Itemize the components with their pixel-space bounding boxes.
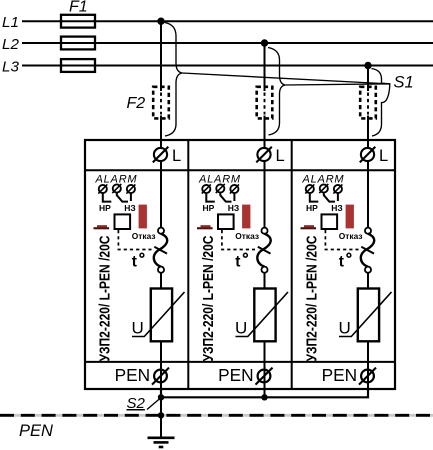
svg-text:PEN: PEN — [218, 365, 254, 385]
wire: module 2 drop from box top to L terminal — [264, 140, 266, 149]
wire: switch to varistor (module 2) — [264, 273, 266, 289]
ALARM terminal 3 (module 3) — [333, 184, 342, 193]
thermal switch tick (module 2) — [258, 247, 271, 254]
ALARM terminal 2 (module 3) — [319, 184, 328, 193]
enclosure divider between module 2 and 3 — [291, 140, 293, 389]
svg-text:t: t — [132, 254, 137, 271]
label t deg (module 3) — [339, 253, 351, 270]
wire: NC contact blade terminals 2-3 (module 2) — [220, 193, 231, 202]
wire: L terminal to switch (module 1) — [160, 161, 162, 229]
svg-text:U: U — [132, 319, 144, 338]
ALARM terminal 1 (module 2) — [202, 184, 211, 193]
svg-text:НЗ: НЗ — [124, 203, 135, 213]
thermal switch blade (module 2) — [257, 234, 270, 267]
terminal PEN (module 3) — [359, 368, 376, 385]
indicator red bar Otkaz (module 3) — [346, 205, 354, 229]
terminal PEN (module 2) — [256, 368, 273, 385]
svg-text:t: t — [235, 254, 240, 271]
terminal L (module 2) — [256, 147, 284, 165]
wire: NO contact from terminal 1 (module 2) — [206, 193, 215, 202]
svg-text:PEN: PEN — [19, 422, 53, 440]
ground symbol — [148, 438, 175, 447]
node: PEN bus junction module 2 — [261, 394, 267, 400]
wire: varistor to PEN terminal (module 3) — [367, 341, 369, 389]
dashed control link square to thermal switch (module 3) — [325, 230, 358, 250]
thermal switch top contact (module 3) — [365, 228, 371, 234]
terminal L (module 1) — [153, 147, 181, 165]
ALARM terminal 1 (module 3) — [305, 184, 314, 193]
terminal L (module 3) — [360, 147, 388, 165]
dashed control link square to thermal switch (module 2) — [222, 230, 255, 250]
svg-text:L3: L3 — [2, 58, 19, 75]
svg-text:УЗП2-220/ L-PEN /20С: УЗП2-220/ L-PEN /20С — [304, 236, 320, 362]
varistor U body (module 3) — [358, 289, 379, 342]
wire: switch to varistor (module 1) — [160, 273, 162, 289]
ALARM terminal 2 (module 2) — [216, 184, 225, 193]
node: junction earth drop with PEN conductor — [158, 412, 164, 418]
varistor diagonal stroke (module 3) — [339, 292, 392, 337]
thermal switch tick (module 3) — [361, 247, 374, 254]
wire: drop 2 upper segment — [264, 43, 266, 91]
svg-text:U: U — [235, 319, 247, 338]
ALARM terminal 1 (module 1) — [98, 184, 107, 193]
fuse F1 body on L1 — [61, 15, 95, 28]
svg-text:S2: S2 — [127, 395, 146, 412]
thermal switch top contact (module 2) — [261, 228, 267, 234]
svg-text:F2: F2 — [127, 95, 146, 112]
svg-text:НР: НР — [203, 203, 215, 213]
wire: dashed link inside F2 (drop 2) — [264, 93, 266, 115]
enclosure divider between module 1 and 2 — [187, 140, 189, 389]
wire: drop 2 lower segment — [264, 116, 266, 142]
wire: phase line L3 — [22, 65, 433, 67]
thermal switch blade (module 1) — [154, 234, 167, 267]
wire: NO contact from terminal 1 (module 1) — [103, 193, 112, 202]
svg-text:F1: F1 — [69, 0, 88, 16]
svg-text:L1: L1 — [2, 14, 19, 31]
svg-text:Отказ: Отказ — [235, 231, 259, 241]
wire: L terminal to switch (module 3) — [367, 161, 369, 229]
wire: module 3 drop from box top to L terminal — [367, 140, 369, 149]
wire: PEN conductor dashed bus underlay — [0, 414, 433, 417]
wire: L terminal to switch (module 2) — [264, 161, 266, 229]
indicator window square (module 3) — [322, 214, 338, 229]
svg-text:S1: S1 — [394, 74, 414, 92]
svg-text:УЗП2-220/ L-PEN /20С: УЗП2-220/ L-PEN /20С — [97, 236, 113, 362]
svg-text:L2: L2 — [2, 36, 19, 53]
svg-text:НЗ: НЗ — [228, 203, 239, 213]
brace S1 group around drop 3 — [372, 69, 390, 137]
thermal switch blade (module 3) — [361, 234, 374, 267]
wire: switch to varistor (module 3) — [367, 273, 369, 289]
svg-text:U: U — [339, 319, 351, 338]
svg-text:Отказ: Отказ — [339, 231, 363, 241]
indicator red bar Otkaz (module 2) — [242, 205, 250, 229]
wire: varistor to PEN terminal (module 1) — [160, 341, 162, 389]
thermal switch bottom contact (module 1) — [158, 267, 164, 273]
indicator red wedge (module 1) — [94, 225, 110, 229]
varistor diagonal stroke (module 2) — [236, 292, 289, 337]
svg-text:t: t — [339, 254, 344, 271]
indicator red wedge (module 2) — [197, 225, 213, 229]
indicator red bar Otkaz (module 1) — [139, 205, 147, 229]
thermal switch top contact (module 1) — [158, 228, 164, 234]
leader line S2 to bus junction — [147, 398, 161, 410]
thermal switch tick (module 1) — [154, 247, 167, 254]
brace S1 group around drop 2 — [268, 48, 285, 136]
svg-text:УЗП2-220/ L-PEN /20С: УЗП2-220/ L-PEN /20С — [201, 236, 217, 362]
wire: module 1 drop from box top to L terminal — [160, 140, 162, 149]
varistor diagonal stroke (module 1) — [132, 292, 185, 337]
wire: stub below terminal 3 (module 1) — [130, 193, 132, 201]
wire: earth drop from bus — [160, 397, 162, 437]
leader line brace 2 to S1 — [285, 84, 390, 85]
node: junction L2 tap — [261, 39, 268, 46]
ALARM terminal 2 (module 1) — [112, 184, 121, 193]
wire: drop 3 upper segment — [367, 66, 369, 92]
svg-text:L: L — [172, 147, 181, 165]
wire: dashed link inside F2 (drop 1) — [160, 93, 162, 115]
ALARM terminal 3 (module 2) — [230, 184, 239, 193]
wire: drop 3 lower segment — [367, 116, 369, 142]
wire: NC contact blade terminals 2-3 (module 1) — [117, 193, 128, 202]
node: PEN bus junction module 1 — [158, 394, 164, 400]
enclosure divider above PEN row — [85, 361, 395, 363]
label t deg (module 2) — [235, 253, 247, 270]
wire: stub below terminal 3 (module 2) — [233, 193, 235, 201]
enclosure divider below L terminals — [85, 169, 395, 171]
terminal PEN (module 1) — [152, 368, 169, 385]
wire: NC contact blade terminals 2-3 (module 3) — [324, 193, 335, 202]
wire: module 2 drop to PEN bus — [264, 389, 266, 397]
label t deg (module 1) — [132, 253, 144, 270]
dashed control link square to thermal switch (module 1) — [118, 230, 151, 250]
svg-text:Отказ: Отказ — [132, 231, 156, 241]
wire: varistor to PEN terminal (module 2) — [264, 341, 266, 389]
brace S1 group around drop 1 — [165, 23, 183, 137]
svg-text:PEN: PEN — [322, 365, 358, 385]
fuse F2 dashed body (drop 2) — [257, 87, 273, 119]
indicator window square (module 2) — [218, 214, 234, 229]
thermal switch bottom contact (module 3) — [365, 267, 371, 273]
fuse F1 body on L3 — [61, 59, 95, 72]
node: junction L1 tap — [157, 18, 164, 25]
wire: stub below terminal 3 (module 3) — [337, 193, 339, 201]
ALARM terminal 3 (module 1) — [126, 184, 135, 193]
wire: drop 1 upper segment — [160, 21, 162, 91]
indicator red wedge (module 3) — [301, 225, 317, 229]
varistor U body (module 1) — [151, 289, 172, 342]
fuse F1 body on L2 — [61, 37, 95, 50]
wire: drop 1 lower segment — [160, 116, 162, 142]
enclosure outer box — [85, 140, 395, 389]
wire: PEN conductor dashed bus — [0, 414, 433, 417]
svg-text:L: L — [379, 147, 388, 165]
indicator window square (module 1) — [115, 214, 131, 229]
svg-text:НЗ: НЗ — [331, 203, 342, 213]
svg-text:L: L — [276, 147, 285, 165]
svg-text:НР: НР — [99, 203, 111, 213]
fuse F2 dashed body (drop 3) — [360, 87, 376, 119]
wire: phase line L2 — [22, 42, 433, 44]
svg-text:PEN: PEN — [115, 365, 151, 385]
fuse F2 dashed body (drop 1) — [153, 87, 169, 119]
wire: PEN bus below modules — [161, 389, 368, 397]
svg-text:НР: НР — [306, 203, 318, 213]
leader line brace 1 to S1 — [182, 73, 390, 84]
thermal switch bottom contact (module 2) — [261, 267, 267, 273]
node: junction L3 tap — [364, 62, 371, 69]
varistor U body (module 2) — [254, 289, 275, 342]
wire: NO contact from terminal 1 (module 3) — [310, 193, 319, 202]
wire: dashed link inside F2 (drop 3) — [367, 93, 369, 115]
wire: phase line L1 — [22, 20, 433, 22]
